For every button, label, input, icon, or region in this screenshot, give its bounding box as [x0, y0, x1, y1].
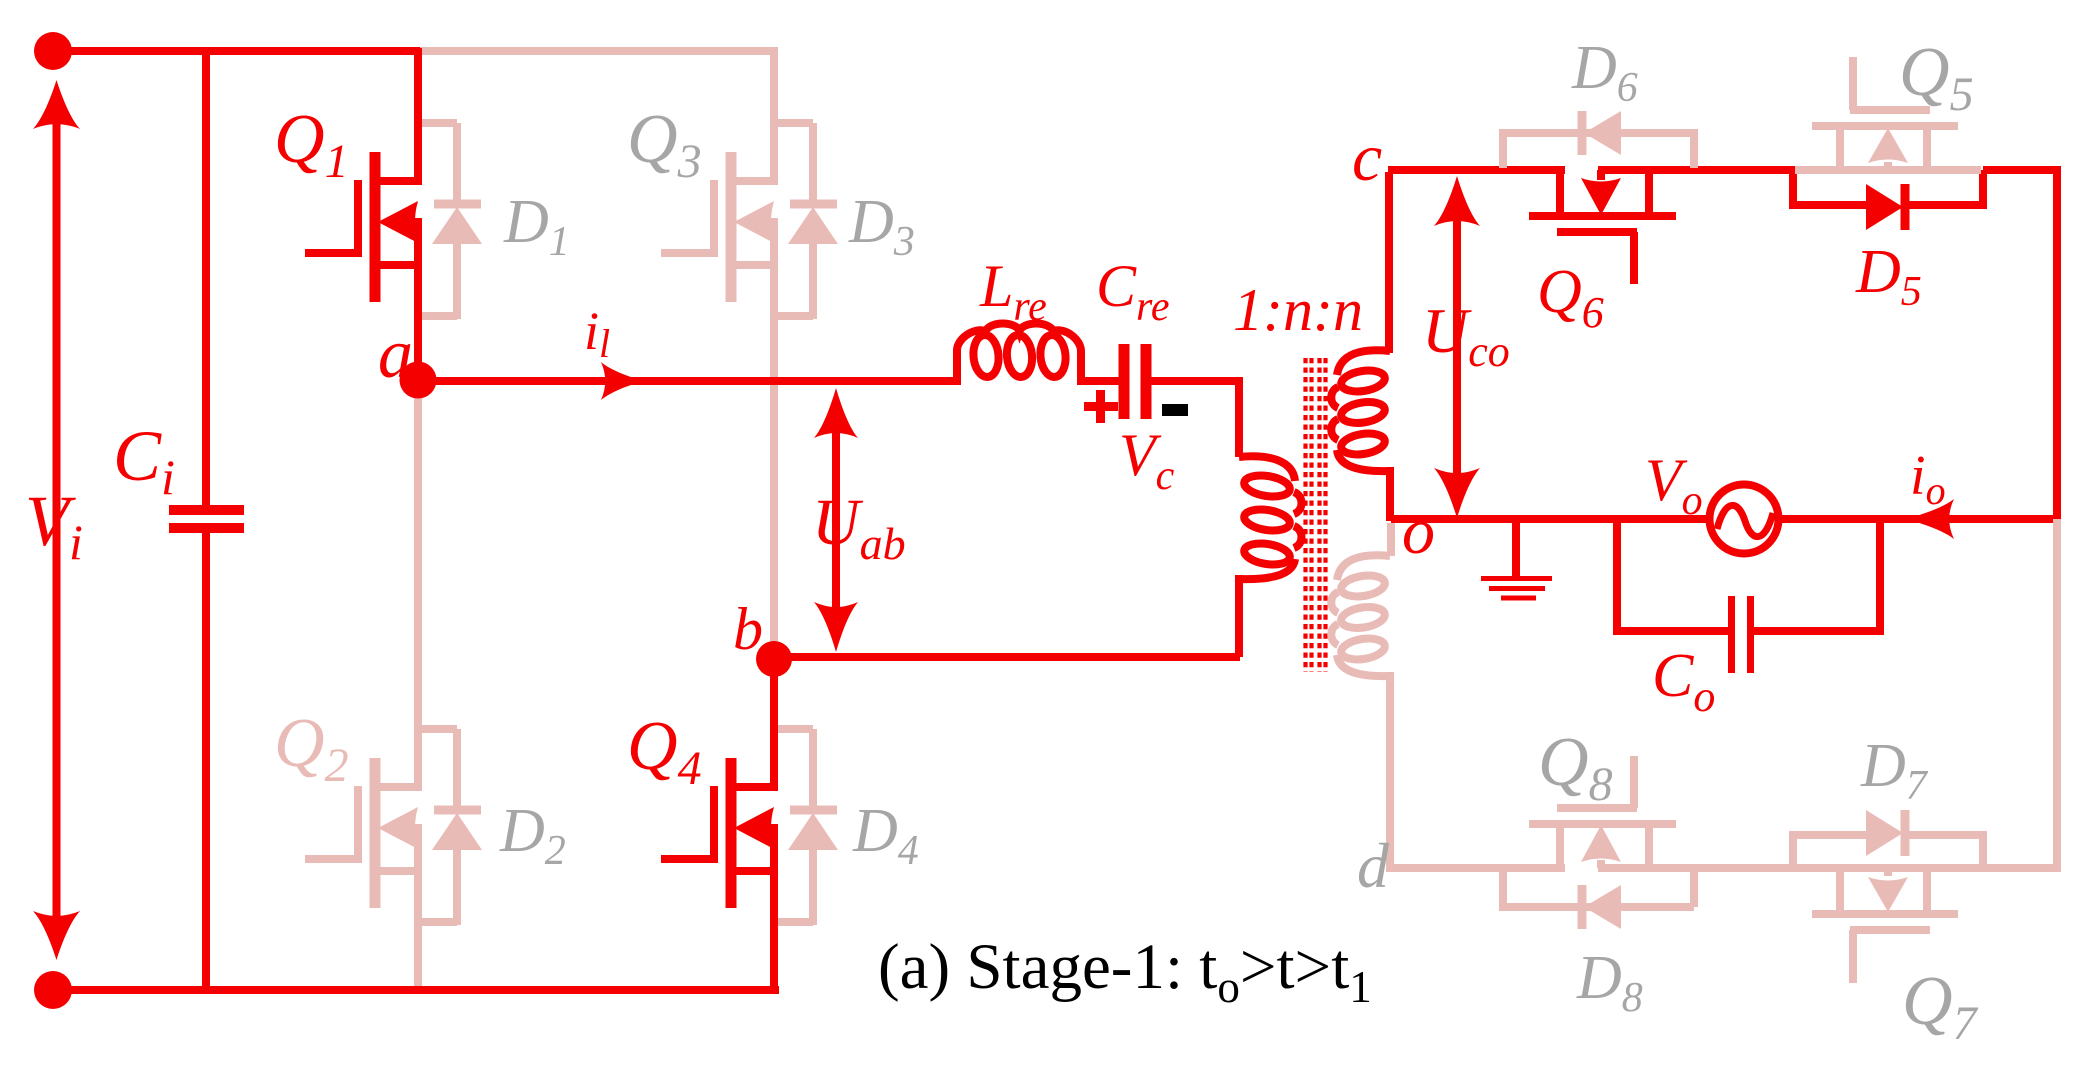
label Vi	[25, 481, 83, 570]
node b	[756, 641, 792, 677]
caption	[878, 931, 1372, 1012]
label D6	[1571, 34, 1638, 111]
wire rail to right corner	[1983, 166, 2061, 174]
wire rail faded (Q5 span)	[1795, 166, 1981, 174]
capacitor Cre	[1124, 344, 1146, 419]
label Q1	[274, 101, 349, 188]
label Q5	[1899, 34, 1974, 121]
label Q6	[1537, 258, 1604, 337]
label Vo	[1645, 447, 1703, 524]
wire a to Q2 drain (faded)	[414, 382, 422, 660]
label Q2	[274, 705, 349, 792]
capacitor Ci	[169, 510, 244, 528]
label Q4	[627, 708, 702, 795]
node a	[400, 362, 437, 399]
body diode D2	[421, 729, 482, 925]
body diode D1	[421, 123, 482, 319]
label 1:n:n	[1233, 277, 1363, 343]
mosfet Q2	[305, 654, 422, 986]
label Ci	[113, 416, 175, 505]
svg-text:b: b	[733, 596, 763, 662]
mosfet Q7	[1812, 868, 1958, 983]
mosfet Q6	[1529, 170, 1676, 284]
wire right vertical faded	[2053, 519, 2061, 872]
label io	[1910, 445, 1946, 513]
svg-text:a: a	[378, 316, 413, 393]
transformer secondary winding top	[1331, 350, 1390, 521]
wire Q3 source to b (faded)	[770, 268, 778, 660]
label Co	[1652, 642, 1715, 721]
svg-text:(a) Stage-1: to>t>t1: (a) Stage-1: to>t>t1	[878, 931, 1372, 1012]
label D2	[499, 797, 566, 874]
label Cre	[1096, 253, 1169, 330]
label D3	[848, 188, 915, 265]
capacitor Ci wire top	[202, 51, 210, 510]
wire c to secondary	[1385, 172, 1393, 353]
current arrow il	[601, 362, 643, 400]
mosfet Q4	[661, 654, 778, 986]
label D4	[852, 797, 919, 874]
label D5	[1855, 238, 1922, 315]
label Q8	[1538, 724, 1613, 811]
wire output rail o	[1391, 515, 2057, 523]
capacitor Co branch	[1617, 519, 1880, 631]
label Q7	[1902, 963, 1979, 1050]
mosfet Q8	[1529, 756, 1676, 868]
body diode D4	[777, 729, 838, 925]
label c	[1352, 119, 1382, 195]
mosfet Q5	[1812, 57, 1958, 170]
wire d rail segment 1	[1391, 864, 1565, 872]
wire node a to Lre	[415, 377, 961, 385]
svg-text:d: d	[1357, 830, 1390, 901]
svg-text:o: o	[1402, 495, 1435, 568]
label o	[1402, 495, 1435, 568]
label Vc	[1119, 422, 1175, 499]
capacitor Ci wire bottom	[202, 528, 210, 990]
diode D8	[1503, 872, 1694, 929]
source Vo	[1710, 485, 1779, 554]
voltage arrow Vi	[33, 80, 80, 960]
label D8	[1576, 944, 1643, 1021]
node Vi- terminal	[34, 971, 72, 1009]
label Uab	[812, 486, 906, 569]
wire d rail segment 2	[1598, 864, 2061, 872]
mosfet Q3	[661, 48, 778, 380]
current arrow io	[1906, 499, 1954, 539]
wire c rail segment 1	[1388, 166, 1565, 174]
ground symbol	[1481, 519, 1552, 598]
label Uco	[1422, 295, 1510, 376]
transformer primary winding	[1146, 381, 1302, 657]
wire right vertical	[2053, 170, 2061, 521]
label d	[1357, 830, 1390, 901]
wire top rail faded (to Q3 drain)	[420, 47, 778, 55]
label D1	[503, 188, 570, 265]
transformer core	[1306, 358, 1326, 672]
wire b to transformer	[774, 653, 1240, 661]
diode D5	[1793, 170, 1983, 230]
diode D6	[1503, 111, 1694, 168]
diode D7	[1793, 810, 1983, 868]
svg-text:1:n:n: 1:n:n	[1233, 277, 1363, 343]
wire top rail (Vi+ to Q1 drain)	[53, 47, 420, 55]
label D7	[1860, 732, 1929, 809]
label a	[378, 316, 413, 393]
capacitor Co	[1732, 596, 1751, 673]
label + polarity	[1084, 390, 1118, 423]
arrow Uab	[814, 388, 858, 652]
arrow Uco	[1434, 176, 1480, 518]
label Q3	[627, 101, 702, 188]
transformer secondary winding bottom (faded)	[1331, 523, 1391, 872]
wire c rail segment 2	[1598, 166, 1797, 174]
label il	[584, 301, 610, 366]
label - polarity	[1162, 404, 1188, 416]
mosfet Q1	[305, 48, 422, 380]
wire bottom rail	[53, 986, 779, 994]
svg-text:c: c	[1352, 119, 1382, 195]
node Vi+ terminal	[34, 32, 72, 70]
body diode D3	[777, 123, 838, 319]
label b	[733, 596, 763, 662]
label Lre	[979, 253, 1047, 330]
inductor Lre	[957, 324, 1124, 385]
